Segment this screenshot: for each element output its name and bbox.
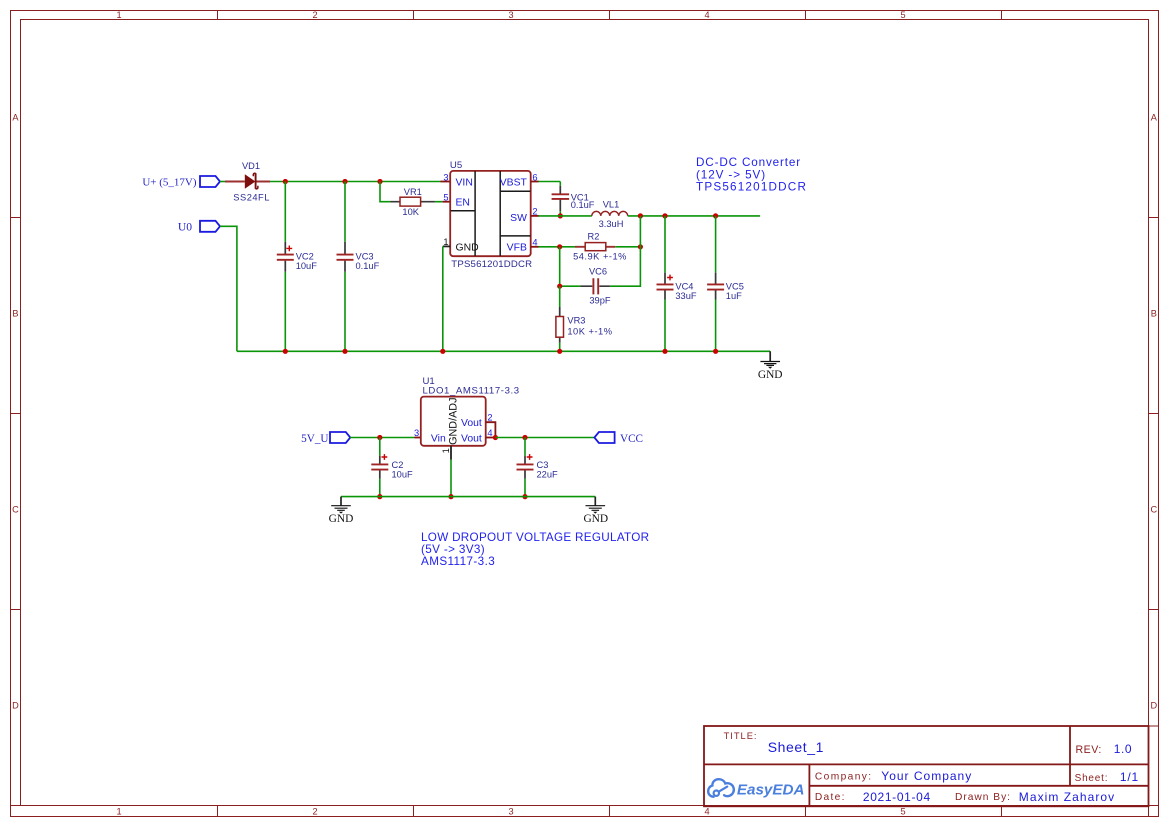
ground GND (LDO right) bbox=[583, 497, 608, 526]
svg-text:2021-01-04: 2021-01-04 bbox=[863, 790, 931, 804]
svg-text:39pF: 39pF bbox=[589, 296, 611, 306]
svg-text:VC3: VC3 bbox=[356, 252, 374, 262]
pin stub GND pin1 (U1) bbox=[450, 446, 452, 460]
svg-text:0.1uF: 0.1uF bbox=[571, 200, 595, 210]
wire U0 to bottom rail bbox=[220, 226, 237, 351]
svg-text:A: A bbox=[1151, 112, 1158, 122]
pin stub SW pin2 bbox=[531, 215, 539, 217]
wire 5V_U to Vin bbox=[350, 437, 415, 439]
junction VC5 top bbox=[713, 213, 718, 218]
svg-text:VIN: VIN bbox=[456, 177, 473, 188]
ground GND (top circuit) bbox=[758, 351, 783, 381]
EasyEDA logo bbox=[708, 779, 804, 798]
svg-text:2: 2 bbox=[487, 413, 492, 423]
capacitor VC6 39pF bbox=[580, 267, 611, 306]
svg-text:10uF: 10uF bbox=[392, 470, 414, 480]
svg-text:22uF: 22uF bbox=[537, 470, 559, 480]
svg-text:Company:: Company: bbox=[815, 772, 873, 783]
svg-text:3: 3 bbox=[508, 10, 513, 20]
wire VC4 branch bbox=[664, 216, 666, 351]
IC U1 AMS1117-3.3 bbox=[414, 376, 520, 453]
resistor VR1 10K bbox=[391, 187, 435, 217]
junction Vout pins bbox=[493, 435, 498, 440]
svg-text:R2: R2 bbox=[588, 232, 600, 242]
svg-text:SS24FL: SS24FL bbox=[233, 192, 270, 202]
svg-text:Vout: Vout bbox=[461, 433, 482, 444]
svg-text:VL1: VL1 bbox=[603, 199, 620, 209]
junction R2 output node bbox=[638, 244, 643, 249]
svg-text:C: C bbox=[12, 504, 19, 514]
svg-text:VR3: VR3 bbox=[567, 315, 585, 325]
svg-text:3: 3 bbox=[508, 807, 513, 817]
IC U5 TPS561201DDCR bbox=[443, 160, 537, 270]
svg-text:54.9K +-1%: 54.9K +-1% bbox=[573, 251, 627, 261]
svg-text:VC5: VC5 bbox=[726, 281, 744, 291]
svg-text:Drawn By:: Drawn By: bbox=[955, 792, 1011, 803]
svg-text:Vout: Vout bbox=[461, 418, 482, 429]
svg-text:Vin: Vin bbox=[431, 433, 446, 444]
svg-text:U+ (5_17V): U+ (5_17V) bbox=[142, 176, 197, 188]
svg-text:EN: EN bbox=[456, 198, 470, 209]
wire U1 pin1 to rail bbox=[450, 460, 452, 497]
junction C2 bottom bbox=[377, 494, 382, 499]
svg-text:VCC: VCC bbox=[620, 433, 643, 445]
junction C3 bottom bbox=[522, 494, 527, 499]
svg-text:2: 2 bbox=[312, 10, 317, 20]
junction SW node bbox=[638, 213, 643, 218]
svg-text:VC2: VC2 bbox=[296, 252, 314, 262]
junction VR1/top bbox=[377, 179, 382, 184]
svg-text:3: 3 bbox=[414, 428, 419, 438]
svg-text:GND: GND bbox=[758, 369, 783, 381]
svg-text:LDO1_AMS1117-3.3: LDO1_AMS1117-3.3 bbox=[423, 385, 520, 396]
svg-text:VFB: VFB bbox=[507, 243, 527, 254]
capacitor VC1 0.1uF bbox=[552, 186, 595, 211]
junction VC5 bottom bbox=[713, 349, 718, 354]
junction U1 gnd on rail bbox=[448, 494, 453, 499]
bottom rail wire bbox=[237, 350, 770, 352]
svg-text:Your Company: Your Company bbox=[881, 769, 972, 783]
wire C2 branch bbox=[379, 438, 381, 497]
net port U+ (5_17V) bbox=[142, 176, 220, 188]
svg-text:GND: GND bbox=[456, 243, 479, 254]
junction VC6 left bbox=[557, 284, 562, 289]
capacitor VC5 1uF bbox=[707, 273, 744, 302]
wire R2 to node bbox=[615, 246, 640, 248]
pin stub Vin pin3 bbox=[415, 437, 421, 439]
svg-text:D: D bbox=[12, 700, 19, 710]
svg-text:5V_U: 5V_U bbox=[301, 433, 328, 445]
net port U0 bbox=[178, 221, 220, 234]
wire port to diode bbox=[220, 181, 226, 183]
svg-text:A: A bbox=[12, 112, 19, 122]
wire VC2 branch bbox=[284, 182, 286, 352]
svg-text:1.0: 1.0 bbox=[1114, 742, 1132, 756]
svg-text:B: B bbox=[12, 308, 18, 318]
svg-text:3.3uH: 3.3uH bbox=[599, 219, 624, 229]
svg-text:GND: GND bbox=[329, 513, 354, 525]
svg-text:GND: GND bbox=[583, 513, 608, 525]
capacitor C2 10uF bbox=[371, 454, 413, 480]
wire VC6 node down to VR3 bbox=[559, 286, 561, 351]
pin stub Vout pin2 (bent) bbox=[486, 422, 496, 436]
junction VC3 bottom bbox=[342, 349, 347, 354]
pin stub Vout pin4 bbox=[486, 437, 496, 439]
svg-text:10uF: 10uF bbox=[296, 261, 318, 271]
pin stub VFB pin4 bbox=[531, 246, 539, 248]
svg-text:VD1: VD1 bbox=[242, 161, 260, 171]
title block bbox=[704, 726, 1149, 806]
svg-text:Sheet_1: Sheet_1 bbox=[768, 739, 824, 755]
wire VFB to R2 bbox=[539, 246, 576, 248]
svg-text:TPS561201DDCR: TPS561201DDCR bbox=[451, 259, 532, 270]
capacitor VC2 10uF bbox=[277, 242, 317, 272]
resistor R2 54.9K bbox=[573, 232, 627, 262]
capacitor VC3 0.1uF bbox=[337, 242, 380, 272]
junction VC4 bottom bbox=[662, 349, 667, 354]
svg-text:VR1: VR1 bbox=[404, 187, 422, 197]
wire VBST to VC1 bbox=[539, 182, 561, 216]
svg-text:GND/ADJ: GND/ADJ bbox=[448, 398, 460, 445]
svg-text:B: B bbox=[1151, 308, 1157, 318]
svg-text:AMS1117-3.3: AMS1117-3.3 bbox=[421, 555, 495, 568]
svg-text:(12V -> 5V): (12V -> 5V) bbox=[696, 168, 766, 181]
pin stub EN pin5 bbox=[443, 201, 451, 203]
wire C3 branch bbox=[524, 438, 526, 497]
pin stub VBST pin6 bbox=[531, 181, 539, 183]
svg-text:Sheet:: Sheet: bbox=[1075, 773, 1109, 784]
svg-text:VBST: VBST bbox=[500, 177, 528, 188]
net port 5V_U bbox=[301, 432, 350, 445]
svg-text:33uF: 33uF bbox=[675, 291, 697, 301]
svg-text:5: 5 bbox=[900, 807, 905, 817]
svg-text:U0: U0 bbox=[178, 221, 192, 234]
svg-text:10K +-1%: 10K +-1% bbox=[567, 326, 612, 336]
wire VR1 branch bbox=[380, 182, 443, 202]
comment LOW DROPOUT VOLTAGE REGULATOR bbox=[421, 531, 649, 568]
capacitor VC4 33uF bbox=[657, 273, 697, 302]
diode VD1 SS24FL bbox=[225, 161, 270, 202]
wire diode to U5 VIN bbox=[270, 181, 441, 183]
svg-text:D: D bbox=[1150, 700, 1157, 710]
wire VC3 branch bbox=[344, 182, 346, 352]
junction VR3 bottom bbox=[557, 349, 562, 354]
junction VC3/top bbox=[342, 179, 347, 184]
svg-text:5: 5 bbox=[900, 10, 905, 20]
junction VC1/SW bbox=[558, 213, 563, 218]
comment DC-DC Converter bbox=[696, 156, 807, 193]
junction GND pin column on rail bbox=[440, 349, 445, 354]
svg-text:4: 4 bbox=[704, 10, 709, 20]
svg-text:1/1: 1/1 bbox=[1120, 770, 1139, 784]
junction VC4 top bbox=[662, 213, 667, 218]
junction C2 top bbox=[377, 435, 382, 440]
wire SW node down through R2 node to VC6 bbox=[610, 216, 641, 286]
svg-text:C: C bbox=[1150, 504, 1157, 514]
inductor VL1 3.3uH bbox=[592, 199, 628, 229]
svg-text:Date:: Date: bbox=[815, 792, 846, 803]
ground GND (LDO left) bbox=[329, 497, 354, 526]
capacitor C3 22uF bbox=[517, 454, 559, 480]
wire VFB node down to VC6 bbox=[560, 247, 581, 286]
svg-text:VC6: VC6 bbox=[589, 267, 607, 277]
svg-text:DC-DC Converter: DC-DC Converter bbox=[696, 156, 801, 169]
svg-text:4: 4 bbox=[704, 807, 709, 817]
svg-text:C3: C3 bbox=[537, 460, 549, 470]
junction VFB branch bbox=[557, 244, 562, 249]
svg-text:U5: U5 bbox=[450, 160, 462, 171]
wire SW to VL1 bbox=[539, 215, 592, 217]
svg-text:1uF: 1uF bbox=[726, 291, 742, 301]
svg-text:C2: C2 bbox=[392, 460, 404, 470]
wire VC5 branch bbox=[715, 216, 717, 351]
svg-text:SW: SW bbox=[510, 213, 527, 224]
pin stub VIN pin3 bbox=[441, 181, 451, 183]
junction VC2/top bbox=[283, 179, 288, 184]
junction VC2 bottom bbox=[283, 349, 288, 354]
svg-text:TITLE:: TITLE: bbox=[724, 731, 758, 741]
resistor VR3 10K bbox=[556, 307, 613, 343]
svg-text:TPS561201DDCR: TPS561201DDCR bbox=[696, 181, 807, 194]
wire Vout to VCC bbox=[495, 437, 594, 439]
svg-text:1: 1 bbox=[116, 10, 121, 20]
svg-text:10K: 10K bbox=[402, 207, 419, 217]
net port VCC bbox=[594, 432, 643, 445]
LDO bottom rail wire bbox=[341, 496, 595, 498]
wire VL1 to output bbox=[628, 215, 760, 217]
svg-text:REV:: REV: bbox=[1076, 744, 1102, 756]
wire GND pin1 to rail bbox=[442, 246, 444, 351]
svg-text:VC4: VC4 bbox=[675, 281, 693, 291]
pin stub GND pin1 bbox=[443, 245, 450, 247]
svg-text:2: 2 bbox=[312, 807, 317, 817]
svg-text:3: 3 bbox=[443, 172, 448, 182]
svg-text:1: 1 bbox=[116, 807, 121, 817]
svg-text:1: 1 bbox=[441, 448, 451, 453]
svg-text:EasyEDA: EasyEDA bbox=[737, 781, 805, 798]
svg-text:5: 5 bbox=[443, 193, 448, 203]
svg-text:Maxim Zaharov: Maxim Zaharov bbox=[1019, 790, 1115, 804]
junction C3 top bbox=[522, 435, 527, 440]
svg-text:0.1uF: 0.1uF bbox=[356, 261, 380, 271]
